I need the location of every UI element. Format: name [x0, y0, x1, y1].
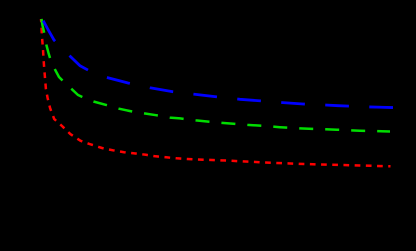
blue curve — [42, 19, 394, 108]
red curve — [41, 19, 391, 166]
green curve — [41, 17, 390, 132]
